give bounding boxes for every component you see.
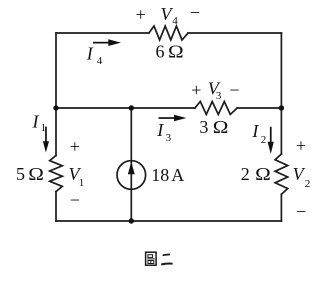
svg-text:I: I <box>251 121 259 141</box>
svg-text:I: I <box>86 44 94 64</box>
svg-text:1: 1 <box>41 122 47 134</box>
svg-text:−: − <box>70 190 80 210</box>
svg-text:+: + <box>191 80 201 100</box>
svg-text:I: I <box>156 120 164 140</box>
svg-text:1: 1 <box>79 177 85 189</box>
svg-text:18: 18 <box>151 165 169 185</box>
svg-text:Ω: Ω <box>255 165 271 184</box>
svg-text:Ω: Ω <box>213 118 229 137</box>
svg-text:2: 2 <box>305 178 311 190</box>
svg-text:−: − <box>229 80 239 100</box>
svg-text:2: 2 <box>261 134 267 146</box>
svg-text:4: 4 <box>172 15 178 27</box>
svg-text:3: 3 <box>216 90 222 102</box>
svg-text:5: 5 <box>16 164 25 184</box>
svg-text:Ω: Ω <box>28 165 44 184</box>
svg-text:3: 3 <box>199 117 208 137</box>
svg-text:−: − <box>190 3 200 23</box>
svg-text:I: I <box>32 112 40 132</box>
svg-text:+: + <box>296 136 306 156</box>
svg-text:+: + <box>70 137 80 157</box>
svg-text:6: 6 <box>156 42 165 62</box>
svg-text:Ω: Ω <box>168 43 184 62</box>
svg-text:A: A <box>171 165 184 185</box>
svg-text:+: + <box>136 4 146 24</box>
svg-text:2: 2 <box>241 164 250 184</box>
svg-text:4: 4 <box>97 55 103 67</box>
svg-text:−: − <box>296 201 306 221</box>
svg-text:V: V <box>293 164 306 184</box>
svg-text:3: 3 <box>166 132 172 144</box>
